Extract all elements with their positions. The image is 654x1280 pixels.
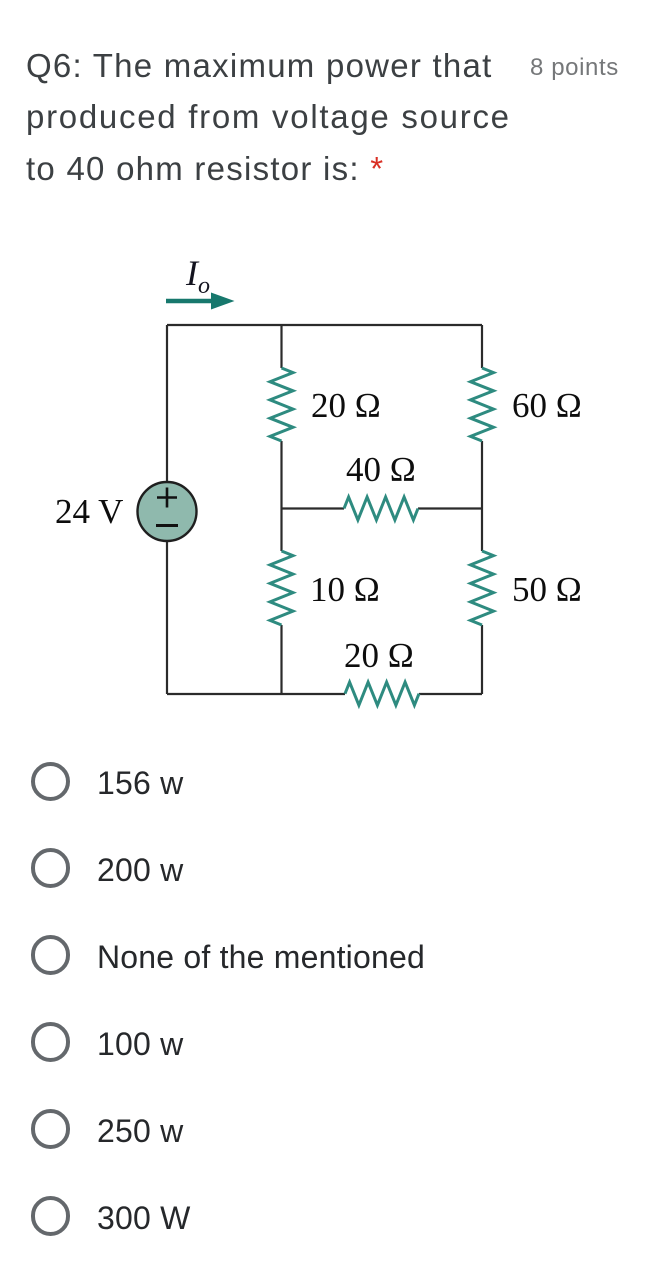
wire middle branch center xyxy=(280,441,282,551)
plus terminal mark xyxy=(157,488,177,508)
resistor 50ohm (vertical, right branch) xyxy=(471,551,494,625)
option 1: 156 w xyxy=(31,762,71,802)
svg-text:20 Ω: 20 Ω xyxy=(344,636,414,675)
wire middle branch bottom stub xyxy=(280,625,282,694)
option 4: 100 w xyxy=(31,1022,71,1062)
resistor 60ohm (vertical, right branch) xyxy=(471,368,494,441)
wire middle horizontal right lead xyxy=(418,507,482,509)
resistor 10ohm (vertical, middle branch) xyxy=(270,551,293,625)
current arrow Io xyxy=(166,299,213,304)
option 5: 250 w xyxy=(31,1109,71,1149)
resistor 20ohm top (vertical, middle branch) xyxy=(270,368,293,441)
wire middle branch top stub xyxy=(280,325,282,368)
svg-text:10 Ω: 10 Ω xyxy=(310,570,380,609)
wire middle horizontal left lead xyxy=(282,507,345,509)
wire left lower xyxy=(166,541,168,694)
wire left upper xyxy=(166,325,168,482)
circuit schematic xyxy=(0,240,654,740)
svg-text:60 Ω: 60 Ω xyxy=(512,386,582,425)
wire right branch bottom stub xyxy=(481,625,483,694)
wire right branch top stub xyxy=(481,325,483,368)
svg-text:20 Ω: 20 Ω xyxy=(311,386,381,425)
wire right branch center xyxy=(481,441,483,551)
svg-text:o: o xyxy=(198,273,210,299)
resistor 20ohm bottom (horizontal, bottom wire) xyxy=(345,682,419,705)
voltage source V1 24V xyxy=(138,482,197,541)
minus terminal mark xyxy=(156,524,178,527)
resistor 40ohm (horizontal, middle wire) xyxy=(344,497,418,520)
points badge xyxy=(530,54,619,82)
question title xyxy=(26,40,511,194)
svg-text:50 Ω: 50 Ω xyxy=(512,570,582,609)
option 3: None of the mentioned xyxy=(31,935,71,975)
wire bottom left xyxy=(167,693,345,695)
option 6: 300 W xyxy=(31,1196,71,1236)
svg-text:24 V: 24 V xyxy=(55,492,123,531)
wire bottom right xyxy=(419,693,482,695)
svg-text:40 Ω: 40 Ω xyxy=(346,450,416,489)
option 2: 200 w xyxy=(31,848,71,888)
wire top (node a) xyxy=(167,324,482,326)
